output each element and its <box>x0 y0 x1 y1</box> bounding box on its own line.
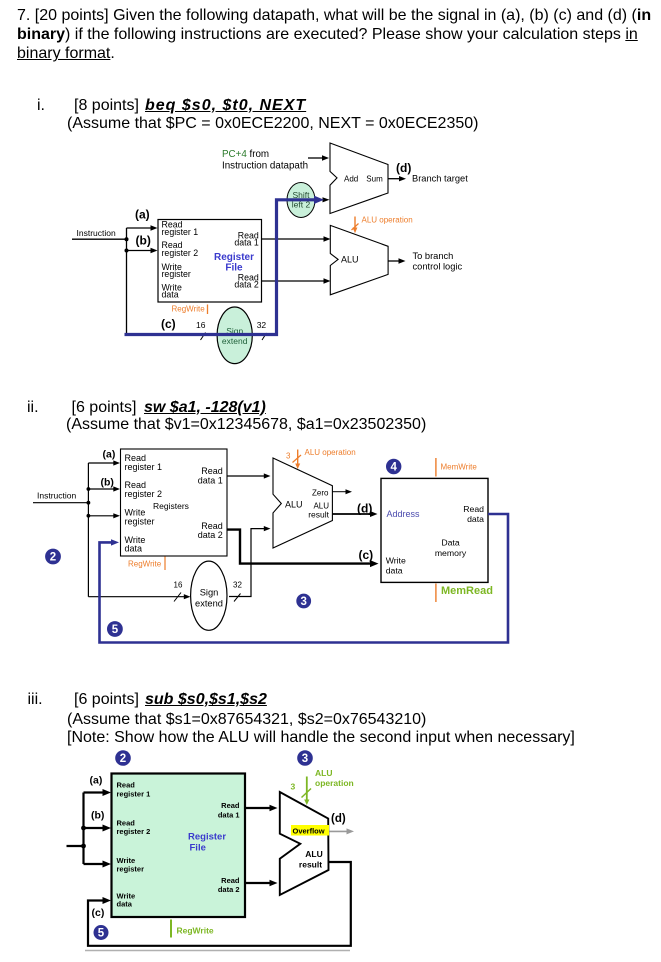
svg-text:data: data <box>386 566 403 576</box>
wire instruction bus (ii) <box>33 463 88 597</box>
wire to read register 2 <box>127 248 158 253</box>
wire to read register 2 (iii) <box>84 825 112 832</box>
wire read data 1 to ALU (ii) <box>227 473 271 478</box>
svg-text:(b): (b) <box>101 477 114 489</box>
svg-text:File: File <box>190 843 206 854</box>
node marker 2 (ii) <box>45 549 61 565</box>
svg-text:register: register <box>162 269 191 279</box>
sign extend unit (i) body <box>217 307 252 364</box>
svg-text:4: 4 <box>390 462 397 474</box>
svg-text:data: data <box>125 544 143 554</box>
svg-text:16: 16 <box>196 320 206 330</box>
signal RegWrite (ii) <box>128 557 165 571</box>
svg-text:register 1: register 1 <box>117 790 151 799</box>
wire read data 1 to ALU (iii) <box>245 805 278 812</box>
signal ALU operation (ii) <box>286 448 356 469</box>
svg-text:3: 3 <box>300 596 306 608</box>
svg-text:Instruction: Instruction <box>37 491 76 501</box>
svg-text:data 2: data 2 <box>218 885 240 894</box>
wire read data 1 to ALU <box>262 236 331 241</box>
heading ii <box>27 398 39 417</box>
register file U5 (green) <box>112 774 246 918</box>
svg-text:ALU: ALU <box>341 255 359 265</box>
junction dots (iii) <box>81 826 86 849</box>
shifter Shift left 2 text <box>292 190 311 209</box>
svg-text:(c): (c) <box>92 907 105 919</box>
svg-text:data 1: data 1 <box>218 810 240 819</box>
svg-text:extend: extend <box>222 336 248 346</box>
svg-text:Branch target: Branch target <box>412 174 468 184</box>
svg-text:Write: Write <box>386 556 406 566</box>
svg-text:register 2: register 2 <box>125 489 163 499</box>
sign extend unit (ii) <box>191 561 227 630</box>
wire instruction bus <box>72 228 127 335</box>
junction dots (ii) <box>87 487 91 518</box>
svg-text:Zero: Zero <box>312 488 329 497</box>
svg-text:RegWrite: RegWrite <box>177 926 214 936</box>
node To branch control logic <box>413 251 463 272</box>
svg-text:3: 3 <box>286 452 291 461</box>
svg-text:control logic: control logic <box>413 262 463 272</box>
svg-text:Register: Register <box>188 832 226 843</box>
register file U2 (Registers) <box>121 449 228 556</box>
node marker 3 (ii) <box>296 594 311 609</box>
svg-text:result: result <box>299 859 322 869</box>
svg-text:data 1: data 1 <box>234 237 259 247</box>
svg-text:32: 32 <box>233 581 242 590</box>
wire to read register 2 (ii) <box>88 486 120 491</box>
register file U1 <box>158 220 262 303</box>
svg-text:ALU: ALU <box>315 768 332 778</box>
svg-text:(d): (d) <box>357 502 372 516</box>
svg-text:Registers: Registers <box>153 501 189 511</box>
wire ALU output to branch control <box>388 258 406 263</box>
svg-text:Address: Address <box>387 509 421 519</box>
wire 16-bit immediate to sign extend <box>88 594 190 599</box>
svg-text:register: register <box>125 516 155 526</box>
wire input bus (iii) <box>67 793 84 865</box>
signal RegWrite (iii, green) <box>171 920 214 938</box>
signal Overflow (yellow) <box>291 825 329 836</box>
wire to write register (iii) <box>84 861 112 868</box>
svg-text:2: 2 <box>50 552 56 564</box>
svg-text:RegWrite: RegWrite <box>172 304 206 313</box>
ALU U3 (ii) <box>273 458 332 548</box>
paragraph: problem statement <box>17 6 651 63</box>
node Branch target <box>412 174 468 184</box>
svg-text:register 2: register 2 <box>117 827 151 836</box>
svg-text:Data: Data <box>441 538 460 548</box>
svg-text:File: File <box>225 262 243 273</box>
junction dots <box>125 237 129 252</box>
svg-text:data: data <box>162 290 179 300</box>
svg-text:Add: Add <box>344 175 358 184</box>
wire to read register 1 (ii) <box>88 460 120 465</box>
svg-text:data 2: data 2 <box>198 530 223 540</box>
wire sign extend output to ALU input 2 <box>229 526 271 597</box>
svg-text:register 2: register 2 <box>162 248 199 258</box>
bus width 32 <box>257 320 267 340</box>
wire blue branch-offset path (sign extend to adder) <box>125 196 330 335</box>
svg-text:(d): (d) <box>331 813 346 825</box>
shifter Shift left 2 <box>287 183 315 218</box>
svg-text:data 2: data 2 <box>234 279 259 289</box>
svg-text:data: data <box>467 514 484 524</box>
svg-text:operation: operation <box>315 778 354 788</box>
heading iii <box>28 690 43 709</box>
wire read data 2 to memory write data <box>227 530 379 568</box>
wire PC+4 into adder <box>308 155 329 160</box>
ALU U6 (iii) <box>280 792 329 895</box>
bus width 16 (ii) <box>174 581 183 602</box>
svg-text:(a): (a) <box>90 775 103 787</box>
wire ALU result to memory address <box>332 511 377 517</box>
svg-text:To branch: To branch <box>413 251 454 261</box>
wire read data 2 to ALU (iii) <box>245 880 278 887</box>
svg-text:(a): (a) <box>135 208 150 222</box>
signal RegWrite (i) <box>172 304 208 314</box>
svg-text:MemRead: MemRead <box>441 585 493 597</box>
svg-text:Overflow: Overflow <box>293 826 325 835</box>
svg-text:memory: memory <box>435 548 467 558</box>
signal MemWrite <box>436 458 477 477</box>
wire to read register 1 <box>127 225 158 230</box>
svg-text:(a): (a) <box>103 449 116 461</box>
svg-text:register 1: register 1 <box>125 462 163 472</box>
svg-text:(d): (d) <box>396 161 411 175</box>
svg-text:ALU operation: ALU operation <box>305 448 356 457</box>
svg-text:3: 3 <box>302 753 308 765</box>
svg-text:5: 5 <box>98 928 105 940</box>
svg-text:left 2: left 2 <box>292 200 311 210</box>
svg-text:(b): (b) <box>136 234 151 248</box>
wire adder output to branch target <box>388 176 406 181</box>
bus width 16 <box>196 320 206 340</box>
wire blue memory read data to register write data <box>100 514 509 643</box>
signal ALU operation (i) <box>352 216 413 234</box>
svg-text:Read: Read <box>463 504 484 514</box>
svg-text:register 1: register 1 <box>162 227 199 237</box>
wire read data 2 to ALU <box>262 278 331 283</box>
svg-text:Sum: Sum <box>366 175 383 184</box>
svg-text:ALU: ALU <box>305 849 322 859</box>
svg-text:Instruction: Instruction <box>77 228 116 238</box>
svg-text:Read: Read <box>221 801 240 810</box>
svg-text:3: 3 <box>291 782 296 792</box>
wire to write register (ii) <box>88 513 120 518</box>
svg-text:Instruction datapath: Instruction datapath <box>222 161 308 172</box>
svg-text:2: 2 <box>120 753 126 765</box>
node marker 3 (iii) <box>297 750 313 766</box>
node marker 4 (ii) <box>386 459 401 474</box>
svg-text:extend: extend <box>195 598 223 608</box>
svg-text:Sign: Sign <box>200 587 219 597</box>
svg-text:ALU: ALU <box>285 500 303 510</box>
adder Add/Sum <box>330 143 388 214</box>
svg-text:RegWrite: RegWrite <box>128 560 162 569</box>
svg-text:(b): (b) <box>91 810 104 822</box>
signal ALU operation (iii, green) <box>291 768 354 805</box>
heading i <box>37 96 45 115</box>
svg-text:(c): (c) <box>359 548 374 562</box>
svg-text:Read: Read <box>117 781 136 790</box>
ALU (i) <box>330 225 388 294</box>
wire Zero output <box>332 489 352 494</box>
node marker 5 (iii) <box>94 925 109 940</box>
svg-text:5: 5 <box>112 624 119 636</box>
wire overflow gray arrow <box>330 828 355 834</box>
node PC+4 label <box>222 149 308 172</box>
svg-text:Read: Read <box>221 876 240 885</box>
svg-text:register: register <box>117 864 145 873</box>
svg-text:data: data <box>117 899 133 908</box>
wire to read register 1 (iii) <box>84 789 112 796</box>
gray separator line at bottom <box>85 950 350 952</box>
svg-text:result: result <box>308 510 329 520</box>
svg-text:32: 32 <box>257 320 267 330</box>
node marker 2 (iii) <box>115 750 131 766</box>
svg-text:ALU operation: ALU operation <box>362 216 413 225</box>
svg-text:PC+4 from: PC+4 from <box>222 149 269 160</box>
svg-text:MemWrite: MemWrite <box>441 463 478 472</box>
svg-text:16: 16 <box>174 581 183 590</box>
svg-text:(c): (c) <box>161 317 176 331</box>
wire ALU result feedback to write data (iii) <box>88 862 351 946</box>
node marker 5 (ii) <box>107 621 123 637</box>
bus width 32 (ii) <box>233 581 242 602</box>
signal MemRead <box>436 584 493 603</box>
svg-text:data 1: data 1 <box>198 475 223 485</box>
data memory U4 <box>381 478 488 582</box>
